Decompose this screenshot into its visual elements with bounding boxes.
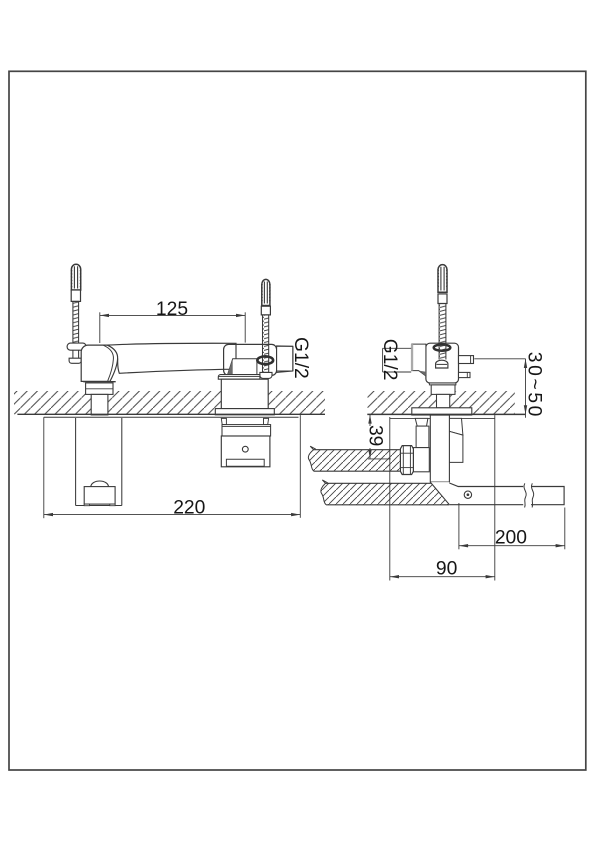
dimension 125 line: [100, 314, 245, 317]
valve top tab right: [264, 418, 269, 424]
pipe break symbol: [523, 483, 534, 507]
handle shank through deck: [91, 394, 108, 415]
handle base flange: [83, 382, 115, 395]
valve body (right view): [426, 343, 459, 383]
dimension 200 extension lines: [459, 503, 565, 549]
central body below deck: [430, 415, 449, 482]
rod through socket: [439, 344, 446, 360]
shank left rect: [416, 426, 429, 448]
dimension 220 line: [44, 513, 301, 516]
supply pipe lower band (right view): [321, 480, 449, 505]
tub spout pipe (right view): [449, 483, 564, 505]
deck bottom line left view: [17, 413, 325, 415]
handle socket ellipse (right view): [434, 345, 451, 351]
dimension 220 extension lines: [44, 415, 301, 518]
svg-text:G1/2: G1/2: [379, 339, 400, 381]
dimension 30~50 extension line: [474, 358, 525, 360]
valve screw hole circle: [242, 446, 248, 452]
svg-text:90: 90: [436, 559, 457, 580]
cutout box left line (right view): [389, 417, 391, 581]
hand spray foot right: [110, 504, 115, 506]
dimension 39 reference lines: [368, 414, 392, 459]
dimension 39 line: [368, 414, 371, 459]
left lever collar (left view): [71, 290, 80, 301]
under-deck line right view: [390, 417, 495, 419]
svg-text:220: 220: [173, 498, 205, 519]
svg-text:125: 125: [156, 299, 188, 320]
supply hex nut: [400, 446, 413, 475]
left lever knurled tip (left view): [71, 264, 81, 290]
body chamfer triangle: [430, 482, 449, 505]
dimension 90 line: [390, 575, 495, 578]
deck bottom line right view: [367, 413, 525, 415]
hand spray drop tube left wall: [75, 418, 77, 506]
hand spray body box: [84, 487, 115, 505]
valve top tab left: [221, 418, 226, 424]
G1/2 end cap (left view): [277, 346, 293, 373]
right lever knurled tip (left view): [261, 279, 270, 305]
G1/2 leader bracket (right view): [383, 348, 412, 372]
spout (left view): [107, 343, 236, 373]
base plate (right view): [412, 408, 472, 415]
supply pipe upper band (right view): [308, 446, 400, 471]
deck hatch band left view: [14, 391, 325, 414]
shank right trapezoid: [449, 418, 463, 435]
spout end housing: [224, 344, 277, 375]
right lever collar (left view): [261, 306, 270, 315]
shank left trapezoid: [415, 418, 428, 426]
svg-text:30~50: 30~50: [523, 352, 544, 419]
spout set screw: [464, 491, 471, 498]
left cover plate (right view): [411, 344, 426, 376]
cutout box top line (left view): [44, 416, 299, 418]
svg-text:200: 200: [495, 527, 527, 548]
spout mounting block: [221, 379, 268, 408]
body neck block: [431, 385, 455, 395]
lower stub (right view): [459, 372, 471, 377]
lever knurled tip (right view): [438, 265, 448, 293]
left lever threaded rod (left view): [73, 301, 79, 343]
left lever rod below arm: [69, 350, 81, 363]
hand spray holder bottom line: [76, 505, 122, 507]
right lever bottom cap: [260, 372, 272, 378]
body neck step: [429, 383, 456, 385]
G1/2 leader bracket (left view): [277, 346, 293, 371]
dimension 30~50 line: [524, 359, 527, 418]
handle body (left view): [81, 345, 117, 381]
screw head (right view): [436, 360, 448, 368]
hand spray foot left: [84, 504, 89, 506]
body lower neck: [437, 394, 450, 407]
lever collar (right view): [438, 294, 447, 304]
right lever threaded rod (left view): [263, 315, 269, 373]
spout base plate in deck: [215, 409, 274, 415]
G1/2 outlet stub (right view): [459, 356, 474, 364]
supply collar: [413, 448, 429, 472]
housing inner trapezoid: [228, 359, 257, 375]
valve bottom recess: [226, 459, 264, 466]
deck hatch band right view: [368, 391, 515, 414]
dimension 200 line: [459, 544, 565, 547]
valve upper band: [222, 425, 271, 436]
svg-text:39: 39: [365, 425, 386, 446]
svg-text:G1/2: G1/2: [290, 337, 311, 379]
spout neck inner curve: [104, 345, 114, 381]
right lever hex nut ellipse: [257, 356, 273, 364]
left lever arm bar: [67, 343, 86, 350]
hand spray dome: [91, 481, 109, 487]
dimension 125 extension lines: [100, 312, 245, 343]
lever threaded rod (right view): [439, 304, 446, 345]
plate under housing: [218, 375, 260, 380]
hand spray drop tube right wall: [121, 418, 123, 506]
cutout box right line (right view): [494, 415, 496, 580]
valve main box: [221, 436, 270, 467]
check valve block right: [449, 431, 463, 462]
